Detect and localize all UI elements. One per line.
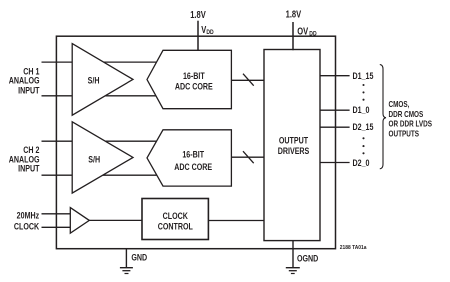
svg-text:S/H: S/H <box>88 74 100 85</box>
ellipsis dots D2 group <box>362 137 364 154</box>
wire output pin D1_0 <box>319 109 350 111</box>
wire CH1+ input to ADC1 <box>42 61 159 63</box>
note CMOS DDR outputs <box>389 99 433 138</box>
svg-text:16-BIT: 16-BIT <box>183 70 205 81</box>
op-amp S/H 1 <box>72 44 133 116</box>
wire ADC2 bus to output drivers <box>231 156 266 158</box>
svg-text:S/H: S/H <box>88 154 100 165</box>
output group brace <box>380 65 386 169</box>
label 16-BIT ADC CORE 1 <box>175 70 213 92</box>
svg-text:ADC CORE: ADC CORE <box>175 81 213 92</box>
wire ADC1 bus to output drivers <box>231 79 266 81</box>
label 16-BIT ADC CORE 2 <box>174 148 212 172</box>
bus slash mark 2 <box>243 151 254 163</box>
svg-text:D2_0: D2_0 <box>353 157 370 168</box>
output drivers box <box>264 50 320 241</box>
ADC core 2 hexagon <box>147 130 231 186</box>
label 20MHz CLOCK <box>14 210 39 232</box>
svg-text:CLOCK: CLOCK <box>14 220 39 231</box>
wire CH2- input to ADC2 <box>42 174 159 176</box>
ground symbol GND <box>120 268 133 274</box>
svg-text:DD: DD <box>206 29 213 36</box>
label VDD <box>201 24 213 36</box>
svg-text:D1_15: D1_15 <box>353 70 374 81</box>
svg-text:CMOS,: CMOS, <box>389 99 410 109</box>
svg-text:20MHz: 20MHz <box>17 210 40 221</box>
ADC core 1 hexagon <box>147 50 231 108</box>
svg-text:OUTPUTS: OUTPUTS <box>389 128 420 138</box>
wire CH1- input to ADC1 <box>42 95 159 97</box>
OGND pin stub <box>292 241 294 268</box>
ground symbol OGND <box>286 268 300 274</box>
svg-text:OGND: OGND <box>297 253 318 264</box>
wire output pin D2_0 <box>319 162 350 164</box>
GND pin stub <box>125 248 127 267</box>
svg-text:DD: DD <box>309 31 316 38</box>
OVDD supply stub <box>292 22 294 50</box>
svg-text:DRIVERS: DRIVERS <box>278 145 310 156</box>
wire CH2+ input to ADC2 <box>42 140 159 142</box>
wire clock control to output drivers <box>208 220 267 222</box>
wire clock buffer to clock control <box>89 219 144 221</box>
svg-text:INPUT: INPUT <box>18 84 40 95</box>
svg-text:2188 TA01a: 2188 TA01a <box>340 245 367 251</box>
wire clock+ input <box>42 213 80 215</box>
ellipsis dots D1 group <box>362 84 364 101</box>
svg-text:D2_15: D2_15 <box>353 121 374 132</box>
clock control box <box>142 199 208 240</box>
wire clock- input <box>42 226 80 228</box>
wire output pin D2_15 <box>319 126 350 128</box>
svg-text:CLOCK: CLOCK <box>163 210 188 221</box>
label CH 2 ANALOG INPUT <box>9 144 41 174</box>
svg-text:D1_0: D1_0 <box>353 104 370 115</box>
svg-text:DDR CMOS: DDR CMOS <box>389 109 424 119</box>
svg-text:1.8V: 1.8V <box>190 9 206 20</box>
label CH 1 ANALOG INPUT <box>9 65 41 95</box>
chip outline box <box>56 36 335 249</box>
svg-text:16-BIT: 16-BIT <box>182 148 204 159</box>
bus slash mark 1 <box>243 74 254 86</box>
clock input buffer <box>70 208 89 234</box>
VDD supply stub <box>197 21 199 51</box>
label OUTPUT DRIVERS <box>278 134 310 156</box>
svg-text:GND: GND <box>131 252 147 263</box>
label CLOCK CONTROL <box>158 210 193 232</box>
svg-text:OV: OV <box>297 25 308 36</box>
svg-text:INPUT: INPUT <box>18 163 40 174</box>
svg-text:ADC CORE: ADC CORE <box>174 161 212 172</box>
svg-text:1.8V: 1.8V <box>286 9 302 20</box>
label OVDD <box>297 25 316 37</box>
wire output pin D1_15 <box>319 75 350 77</box>
svg-text:OR DDR LVDS: OR DDR LVDS <box>389 119 433 129</box>
svg-text:CONTROL: CONTROL <box>158 220 193 231</box>
op-amp S/H 2 <box>72 122 133 193</box>
